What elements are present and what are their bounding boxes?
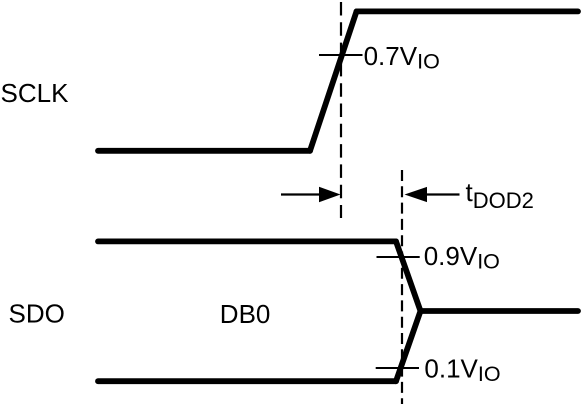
arrow left of tDOD2 interval (pointing right) — [281, 187, 341, 202]
wire SDO rising edge — [396, 311, 421, 381]
tick 0.1VIO level — [376, 367, 419, 369]
wire SCLK low segment — [98, 148, 310, 154]
tick 0.7VIO level — [319, 54, 363, 56]
svg-text:0.9VIO: 0.9VIO — [424, 241, 500, 273]
wire SCLK high segment — [357, 8, 579, 14]
dashed line at SDO transition — [401, 170, 403, 404]
arrow right of tDOD2 interval (pointing left) — [405, 187, 460, 202]
wire SDO low segment — [98, 378, 396, 384]
wire SDO high segment — [98, 238, 396, 244]
svg-text:tDOD2: tDOD2 — [466, 177, 534, 213]
svg-text:SDO: SDO — [9, 299, 65, 329]
wire SDO mid segment — [421, 308, 579, 314]
svg-text:DB0: DB0 — [220, 299, 271, 329]
svg-text:0.7VIO: 0.7VIO — [364, 41, 440, 73]
svg-text:0.1VIO: 0.1VIO — [424, 354, 500, 386]
svg-text:SCLK: SCLK — [1, 78, 70, 108]
wire SCLK rising edge — [310, 11, 357, 150]
tick 0.9VIO level — [377, 256, 420, 258]
dashed line at SCLK 0.7 crossing — [340, 2, 342, 218]
wire SDO falling edge — [396, 241, 421, 311]
